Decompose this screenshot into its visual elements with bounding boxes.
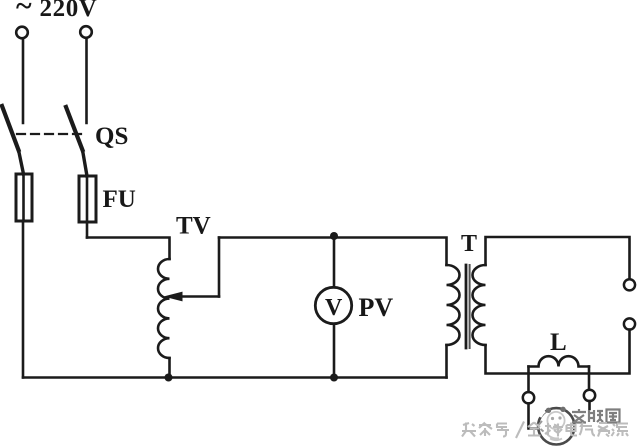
svg-text:V: V xyxy=(325,295,343,321)
svg-text:T: T xyxy=(461,231,477,257)
svg-text:PV: PV xyxy=(359,293,394,322)
svg-text:220V: 220V xyxy=(40,0,98,22)
svg-text:QS: QS xyxy=(95,123,128,150)
svg-text:L: L xyxy=(550,329,567,356)
svg-text:~: ~ xyxy=(16,0,32,23)
svg-text:TV: TV xyxy=(176,213,211,240)
svg-text:FU: FU xyxy=(103,186,136,213)
